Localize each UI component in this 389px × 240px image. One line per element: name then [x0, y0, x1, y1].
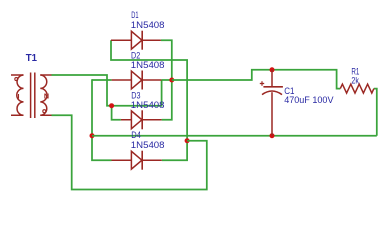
wire net DC+: junction to C1 and R1 — [172, 70, 340, 89]
wire net AC2: D1 anode down, across, down to D4 cathode — [111, 40, 187, 160]
svg-text:1N5408: 1N5408 — [131, 99, 165, 110]
wire net DC+: D2 cathode stub — [161, 79, 171, 81]
wire net DC+: D3 cathode up to junction — [162, 80, 172, 120]
wire net DC+: R1 right lead down to rail — [374, 89, 377, 136]
node junction DC- rail at left — [90, 133, 95, 138]
node junction DC+ — [169, 78, 174, 83]
wire net DC-: D2 anode down to D4 anode — [92, 79, 112, 160]
node junction at D3 anode column — [109, 103, 114, 108]
wire net AC1: junction down to D3 anode lead — [112, 106, 121, 120]
wire net AC1: junction right and up to D2 cathode — [112, 80, 162, 106]
wire net AC2: junction to T1 bottom pin — [52, 115, 207, 189]
svg-text:1N5408: 1N5408 — [131, 59, 165, 70]
diode D3 — [121, 110, 162, 129]
wire net DC+: D1 cathode down to junction — [161, 40, 172, 80]
svg-text:470uF 100V: 470uF 100V — [284, 94, 334, 105]
node junction AC2 — [185, 138, 190, 143]
svg-text:1N5408: 1N5408 — [131, 19, 165, 30]
svg-text:1N5408: 1N5408 — [131, 139, 165, 150]
node junction C1 bottom — [270, 133, 275, 138]
transformer T1 — [11, 73, 52, 119]
diode D2 — [112, 71, 162, 90]
diode D4 — [112, 151, 162, 170]
wire net AC1: T1 top pin to D3 anode column — [52, 75, 112, 106]
resistor R1 — [340, 84, 374, 93]
capacitor C1 — [260, 70, 283, 136]
node junction C1 top — [270, 67, 275, 72]
svg-text:N: N — [44, 91, 49, 100]
svg-text:2k: 2k — [351, 75, 359, 86]
wire net DC-: D2 anode lead-in — [92, 79, 112, 81]
wire net DC-: bottom rail — [92, 135, 377, 137]
svg-text:T1: T1 — [26, 53, 38, 64]
diode D1 — [111, 31, 161, 50]
